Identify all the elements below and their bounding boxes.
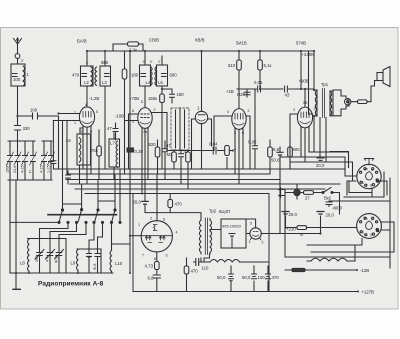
wire: RF transformer T1 primary top to bus B	[86, 51, 88, 66]
resistor R7	[225, 146, 230, 156]
fuse F2 (filled)	[292, 268, 305, 271]
wire: lamp stems	[296, 185, 298, 199]
label: V4 pin numbers	[227, 109, 250, 135]
svg-text:2': 2'	[86, 61, 89, 65]
svg-text:6а: 6а	[364, 167, 368, 171]
label: mixer tank terminals 2'	[21, 59, 161, 65]
svg-text:L6: L6	[66, 138, 71, 143]
socket S1 (pickup/adapter socket)	[357, 164, 381, 188]
svg-text:110: 110	[202, 266, 209, 271]
svg-text:24,6: 24,6	[13, 166, 17, 173]
svg-text:100: 100	[258, 275, 266, 280]
wire: T1 primary bottom to V1 grid	[86, 86, 88, 107]
wire: detector line past C13	[218, 151, 234, 170]
resistor R5	[172, 152, 177, 162]
capacitor C6 plates	[51, 161, 56, 164]
svg-text:4: 4	[85, 103, 87, 107]
wire: output tube left pin to spine	[130, 235, 141, 237]
coil L10	[110, 251, 112, 272]
wire: bleeder resistor stems	[186, 258, 188, 292]
wire: R6 stems	[187, 150, 189, 189]
coil L8	[28, 239, 30, 272]
wire: detour loop with series resistor R2	[113, 44, 143, 51]
wire: output transformer primary connections	[314, 90, 317, 152]
svg-text:Н20: Н20	[237, 92, 245, 97]
svg-text:905-1000З: 905-1000З	[222, 224, 241, 229]
wire: C14 stems	[164, 141, 166, 180]
wire: cap bank rails	[8, 141, 52, 180]
svg-text:1-15: 1-15	[47, 165, 51, 173]
antenna terminal above S1	[364, 159, 373, 165]
capacitor C19 plates	[285, 86, 288, 92]
capacitor C14	[163, 149, 168, 152]
svg-text:680: 680	[170, 73, 178, 78]
svg-text:3: 3	[293, 108, 295, 112]
mixer tank box L4	[140, 65, 151, 86]
capacitor C33 (4000)	[326, 201, 332, 207]
svg-text:5И1В: 5И1В	[236, 41, 247, 46]
band switch lever 4	[112, 209, 117, 222]
capacitor C2 (series antenna cap)	[33, 113, 38, 119]
svg-text:2: 2	[154, 108, 156, 112]
wire: V3 cathode down	[201, 124, 203, 170]
wire: bottom +127V line	[269, 291, 358, 293]
oscillator tank box L5	[157, 65, 168, 86]
coil L7 box	[109, 139, 120, 167]
capacitor C23 (20.0)	[317, 212, 324, 215]
wire: bus taps down to band switch	[63, 121, 121, 222]
wire: socket S1 left feeds	[330, 152, 349, 168]
resistor R14 (cathode 4.7k)	[155, 262, 160, 270]
svg-text:7а: 7а	[143, 130, 147, 134]
svg-text:4: 4	[227, 110, 229, 114]
label: S2 pin marks	[362, 217, 373, 237]
svg-text:-10В: -10В	[115, 114, 124, 119]
wire: anode load cap C8 stems	[115, 123, 117, 140]
svg-text:0,05: 0,05	[254, 80, 263, 85]
wire: heater feed line y227.5 into socket S2	[286, 227, 357, 229]
tube V4 (AF preamp)	[232, 109, 246, 130]
svg-text:7: 7	[142, 254, 144, 258]
wire: mixer tank L4 top to bus A	[144, 51, 146, 65]
wire: V3 left pin	[192, 119, 196, 169]
electrolytic C31 plates	[252, 274, 257, 279]
wire: voice-coil jack to speaker via R-link	[351, 81, 378, 102]
wire: socket S2 lower routing	[285, 197, 394, 258]
wire: L9 bottom lead	[77, 272, 79, 274]
svg-text:L5: L5	[158, 80, 163, 85]
wire: L8 bottom lead	[28, 272, 30, 274]
power switch Vk2	[322, 188, 333, 194]
wire: screen divider column	[259, 51, 261, 89]
svg-text:50,0: 50,0	[242, 275, 251, 280]
wire: top bus (anode supply)	[87, 50, 314, 52]
resistor R10	[268, 147, 273, 157]
wire: R5 stems	[173, 150, 175, 169]
wire: rectifier tube top stem	[246, 219, 256, 228]
svg-text:7: 7	[74, 111, 76, 115]
wire: lower bus 2	[67, 173, 270, 175]
svg-text:П: П	[29, 170, 33, 173]
wire: AF branch down through C16	[254, 89, 256, 169]
label: V5 pin numbers	[293, 101, 316, 112]
svg-text:-1,2В: -1,2В	[89, 96, 99, 101]
svg-text:6: 6	[242, 131, 244, 135]
svg-text:4-15: 4-15	[21, 165, 25, 173]
resistor R1 (AVC)	[122, 69, 127, 79]
wire: ground stem	[15, 273, 17, 289]
svg-text:6: 6	[362, 231, 364, 235]
capacitor C34 plates	[317, 158, 325, 161]
wire: electrolytic bank stems	[231, 266, 268, 292]
svg-text:4000: 4000	[333, 206, 343, 211]
svg-text:6,8: 6,8	[148, 276, 155, 281]
band switch lever 2	[78, 209, 83, 222]
filter choke L12	[311, 258, 347, 261]
svg-text:1: 1	[74, 121, 76, 125]
svg-text:470: 470	[191, 269, 199, 274]
svg-text:50,0: 50,0	[271, 158, 280, 163]
svg-text:+1В: +1В	[226, 89, 234, 94]
wire: V4 anode resistor column to bus B	[238, 51, 240, 109]
svg-text:47: 47	[166, 143, 171, 148]
svg-text:510: 510	[228, 63, 236, 68]
wire: R19 stems	[98, 130, 100, 180]
tube V3 (detector)	[195, 111, 207, 123]
wire: mains plug leads	[281, 190, 286, 196]
coil L4	[151, 67, 153, 86]
svg-text:20,0: 20,0	[289, 212, 298, 217]
wire: V5 bottom pins	[301, 127, 309, 162]
svg-text:470: 470	[72, 73, 80, 78]
resistor R18 (0.25 in grid line, filled style)	[127, 148, 134, 152]
selenium rectifier block box	[221, 219, 246, 248]
wire: rectifier filament line with choke L11	[194, 261, 270, 263]
wire: IF can inner leads	[176, 108, 185, 150]
resistor R19 (75k)	[97, 146, 102, 156]
svg-text:330: 330	[23, 126, 31, 131]
tube V1 (RF amplifier)	[79, 107, 94, 127]
tuning capacitor bank left: plates	[8, 156, 54, 162]
coil L7 winding	[116, 141, 118, 167]
svg-text:2': 2'	[143, 60, 146, 64]
wire: V4 bottom pins	[235, 128, 243, 184]
svg-text:574В: 574В	[296, 41, 306, 46]
wire: bus B drop to output transformer	[313, 51, 315, 90]
svg-text:47: 47	[232, 148, 237, 153]
resistor R13 (470)	[168, 200, 173, 208]
svg-text:3: 3	[166, 254, 168, 258]
wire: V3 right pin to detector cap	[208, 119, 212, 146]
svg-text:5,1к: 5,1к	[264, 63, 272, 68]
svg-text:Тр2: Тр2	[209, 209, 217, 214]
capacitor C29 (1.0) plates	[196, 259, 199, 266]
pilot lamp La1	[294, 189, 300, 195]
power transformer Tr2 core	[205, 218, 207, 255]
svg-text:47: 47	[184, 149, 189, 154]
wire: V5 screen feed from bus	[309, 51, 313, 114]
svg-text:-12В: -12В	[360, 268, 369, 273]
tube V5 (output)	[297, 107, 312, 128]
svg-text:6: 6	[163, 218, 165, 222]
wire: coil bank right rail	[77, 248, 101, 250]
wire: L6 coupling coil stems	[80, 128, 84, 184]
svg-text:4: 4	[176, 231, 178, 235]
power transformer Tr2 left winding	[199, 219, 201, 255]
svg-text:+90В: +90В	[299, 79, 309, 84]
capacitor C7 plates	[66, 175, 71, 178]
label: V2 pin numbers	[132, 100, 156, 134]
band switch lever 3	[95, 209, 100, 222]
svg-text:3: 3	[81, 130, 83, 134]
tube V2 (converter)	[138, 108, 152, 129]
svg-text:2: 2	[314, 107, 316, 111]
svg-text:2,2к: 2,2к	[129, 48, 137, 53]
label: cap bank values (rotated)	[6, 164, 51, 173]
svg-text:2: 2	[262, 241, 264, 245]
svg-text:6: 6	[90, 130, 92, 134]
svg-text:+240К: +240К	[302, 52, 315, 57]
svg-text:3: 3	[132, 120, 134, 124]
label: V7 pin numbers	[138, 217, 178, 262]
capacitor C1 plates	[13, 74, 18, 77]
wire: output tube cathode chain	[156, 252, 158, 292]
capacitor C16 plates	[253, 146, 258, 149]
wire: decoupling cap C7 column	[67, 171, 69, 184]
wire: mixer tank L4 bottom to V2 grid	[144, 86, 146, 108]
svg-text:180: 180	[177, 92, 185, 97]
wire: right return line y152	[309, 152, 349, 168]
power transformer Tr2 right winding	[204, 219, 221, 262]
ground symbol GND1	[13, 288, 20, 290]
svg-text:2: 2	[248, 109, 250, 113]
phone jack J1	[345, 99, 351, 105]
wire: fuse line to -12V tap	[285, 269, 357, 271]
svg-text:600: 600	[293, 147, 301, 152]
wire: output transformer secondary to voice coil	[330, 90, 333, 92]
coil L3 (coupled secondary)	[95, 67, 97, 85]
IF can (dashed shield)	[171, 108, 189, 150]
svg-text:20,0: 20,0	[316, 163, 325, 168]
capacitor C15	[179, 154, 184, 157]
wire: ground rail bottom	[10, 239, 113, 274]
wire: AVC resistor column from bus A	[124, 51, 126, 174]
svg-text:М2: М2	[167, 152, 174, 157]
svg-text:50,0: 50,0	[217, 275, 226, 280]
wire: socket S1 lower routing nest	[330, 172, 390, 268]
capacitor C21 (cathode bypass)	[153, 275, 160, 278]
wire: L7 coil stems	[113, 133, 115, 180]
capacitor C20 (20.0 electrolytic at box top)	[142, 201, 148, 204]
svg-text:L8: L8	[20, 261, 25, 266]
wire: V2 bottom pins	[142, 128, 148, 194]
svg-text:6,8: 6,8	[273, 147, 280, 152]
svg-text:6: 6	[362, 181, 364, 185]
svg-text:4-7: 4-7	[46, 257, 50, 263]
resistor R12 (speaker link)	[358, 100, 368, 104]
wire: lower bus 5	[75, 188, 325, 190]
wire: grid capacitor C6 column	[52, 121, 54, 170]
svg-text:5: 5	[250, 222, 252, 226]
wire: antenna shunt branch down to tuning cap bank	[17, 116, 19, 141]
coil L5 (oscillator coupled)	[155, 67, 157, 86]
wire: long spine from bus A to ground rail	[129, 51, 131, 273]
wire: Tr2 to rectifier block	[246, 233, 250, 235]
svg-text:СВ/В: СВ/В	[149, 38, 159, 43]
svg-text:+70В: +70В	[129, 96, 139, 101]
svg-text:20,0: 20,0	[133, 200, 142, 205]
svg-text:L9: L9	[71, 261, 76, 266]
resistor R9 (5.1k)	[258, 60, 263, 70]
wire: C17 stems	[279, 147, 281, 234]
svg-text:5: 5	[141, 100, 143, 104]
svg-text:g: g	[370, 183, 372, 187]
capacitor C10 plates	[141, 74, 146, 77]
capacitor C27	[87, 254, 92, 257]
svg-text:Тр1: Тр1	[321, 82, 329, 87]
wire: V3 top lead to bus A	[201, 51, 203, 112]
capacitor C18 plates (0.05 coupling)	[258, 86, 261, 92]
socket S2 (speaker/power socket)	[357, 214, 382, 239]
capacitor C3 (shunt 330)	[15, 126, 21, 131]
wire: V2 right pin jog to detector line	[152, 113, 212, 151]
resistor R3 (150k)	[160, 94, 165, 103]
svg-text:2': 2'	[150, 60, 153, 64]
wire: Tr2 secondary bottom to filter	[200, 258, 202, 262]
coil L6 box	[77, 134, 91, 165]
resistor R6	[186, 152, 191, 162]
label: V1 pin numbers	[74, 103, 98, 134]
rectifier tube V6	[250, 228, 261, 240]
svg-text:27: 27	[305, 196, 310, 201]
wire: V5 grid stem	[304, 89, 306, 107]
coil L9	[77, 249, 79, 272]
output transformer Tr1 secondary winding	[330, 91, 332, 116]
svg-text:Ф-З: Ф-З	[93, 263, 97, 270]
wire: mains lamp / switch line	[285, 193, 340, 215]
svg-text:20,0: 20,0	[326, 213, 335, 218]
wire: trimmer stems right group	[89, 249, 98, 273]
electrolytic C32 plates	[266, 274, 271, 279]
svg-text:0,25: 0,25	[135, 149, 144, 154]
wire: trimmer stems left group	[40, 239, 60, 274]
svg-text:6Ц4П: 6Ц4П	[219, 209, 230, 214]
svg-text:Тк: Тк	[299, 232, 303, 237]
capacitor C4 plates inside L2 box	[82, 74, 87, 77]
wire: band switch rotor bar	[48, 214, 117, 216]
voice-coil terminal bracket	[333, 90, 349, 116]
svg-text:100: 100	[13, 77, 21, 82]
svg-text:390: 390	[35, 256, 39, 262]
svg-text:g: g	[370, 233, 372, 237]
loudspeaker Gr1	[377, 67, 390, 87]
svg-text:КВ/В: КВ/В	[195, 38, 205, 43]
wire: choke L12 line to socket area	[307, 246, 355, 261]
wire: socket S1 right tap	[378, 180, 385, 182]
wire: lower bus 1 (AVC)	[53, 168, 345, 170]
svg-text:3: 3	[234, 131, 236, 135]
svg-text:Вк2: Вк2	[324, 196, 332, 201]
trimmer C26	[55, 250, 64, 260]
lightning arrester F1	[15, 54, 20, 59]
wire: right return line y162	[290, 162, 353, 181]
wire: lower bus 3	[66, 179, 280, 181]
mains plug X1	[279, 188, 281, 198]
label: V6 pin numbers	[249, 222, 264, 245]
svg-text:4-15: 4-15	[40, 165, 44, 173]
input tank L1/C1 box	[11, 64, 25, 86]
capacitor C19a plates (N20 hanging)	[244, 92, 250, 95]
label: coil bank trimmer values (rotated)	[35, 255, 97, 270]
svg-text:4З: 4З	[285, 93, 290, 98]
resistor R8 (510 anode load)	[237, 60, 242, 70]
svg-text:о: о	[371, 218, 373, 222]
svg-text:100: 100	[30, 108, 38, 113]
wire: filter cap C22 stem	[285, 216, 287, 228]
wire: padder cap C12 branch	[162, 89, 172, 103]
resistor R15 (bleeder 470)	[184, 266, 189, 274]
wire: R10 stems	[269, 140, 271, 174]
capacitor C11 plates	[162, 74, 167, 77]
svg-text:1: 1	[138, 223, 140, 227]
wire: cap bank to band switch ground return	[10, 180, 59, 273]
svg-text:820: 820	[149, 142, 157, 147]
svg-text:2': 2'	[158, 60, 161, 64]
capacitor inside rectifier block	[229, 234, 235, 249]
svg-text:2': 2'	[104, 61, 107, 65]
wire: V4 right pin	[246, 116, 250, 169]
svg-text:150П: 150П	[6, 164, 10, 173]
wire: AF coupling line y89	[237, 89, 314, 97]
wire: antenna lead-in down to input tank	[17, 50, 19, 116]
svg-text:0,05: 0,05	[248, 140, 257, 145]
antenna W1	[14, 38, 22, 50]
wire: lower bus 4	[70, 183, 340, 185]
wire: V5 left pin	[290, 114, 298, 169]
svg-text:75к: 75к	[91, 148, 98, 153]
secondary tank box L3/C5	[100, 66, 111, 86]
power supply box outline	[85, 194, 269, 292]
output transformer Tr1 left winding	[315, 90, 317, 116]
svg-text:8: 8	[154, 257, 156, 261]
wire: right return line y157	[280, 157, 357, 176]
RF transformer primary box L2	[81, 66, 94, 86]
svg-text:0,04: 0,04	[209, 142, 218, 147]
trimmer arrows on variable caps	[7, 152, 55, 165]
svg-text:L4: L4	[146, 80, 151, 85]
wire: switch outputs to coil bank	[40, 222, 112, 250]
wire: socket S2 right taps	[381, 222, 394, 252]
svg-text:11: 11	[87, 255, 91, 259]
capacitor C12 plates	[170, 94, 175, 97]
svg-text:47: 47	[107, 126, 112, 131]
wire: +240 feed from bus A	[300, 51, 302, 89]
electrolytic C30 plates	[229, 274, 234, 281]
svg-text:L3: L3	[102, 80, 107, 85]
resistor R16 (heater dropper)	[297, 226, 307, 230]
trimmer C25	[46, 250, 55, 260]
svg-text:2': 2'	[21, 59, 24, 63]
output transformer Tr1 core	[322, 89, 324, 118]
capacitor C28	[95, 254, 100, 257]
svg-text:L10: L10	[115, 261, 123, 266]
wire: T1 secondary bottom down to AVC bus	[104, 86, 106, 169]
svg-text:470: 470	[175, 202, 183, 207]
svg-text:470: 470	[272, 275, 280, 280]
wire: filter cap C23 stem	[320, 216, 322, 234]
svg-text:L2: L2	[84, 80, 89, 85]
svg-text:150к: 150к	[148, 96, 157, 101]
